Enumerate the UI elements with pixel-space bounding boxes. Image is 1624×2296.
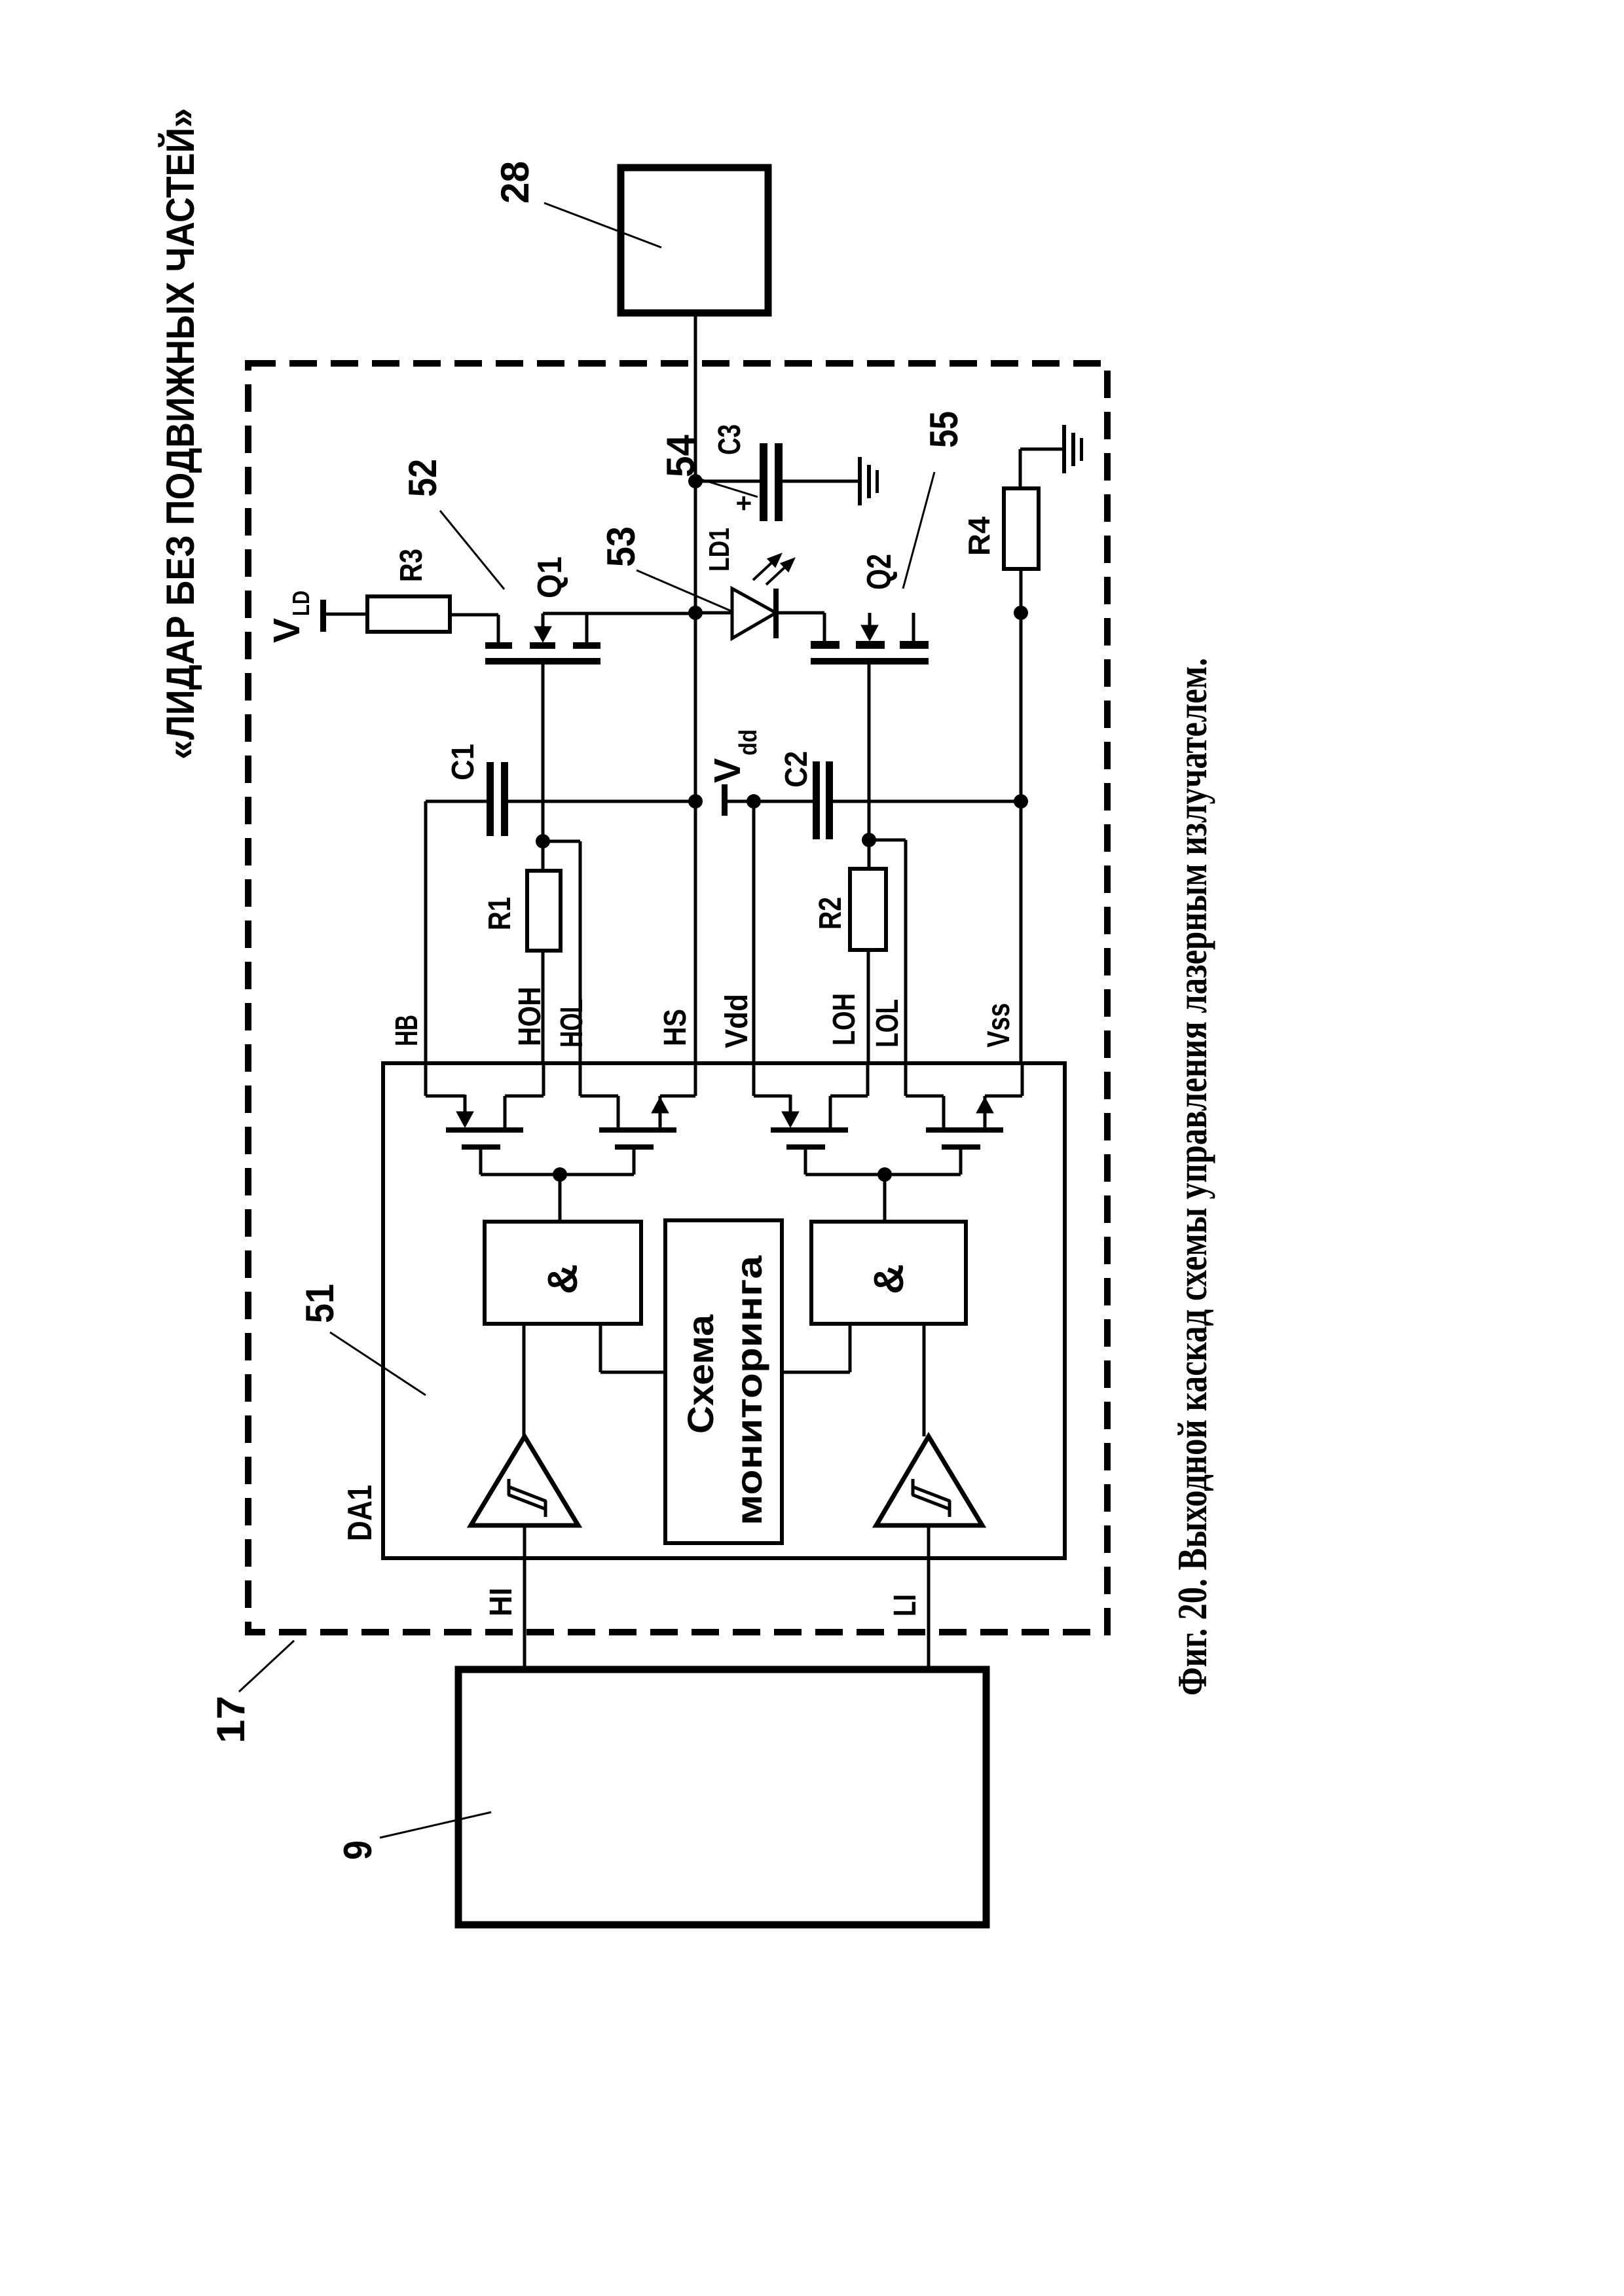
svg-text:Vdd: Vdd bbox=[720, 994, 754, 1048]
svg-text:Фиг. 20. Выходной каскад схе: Фиг. 20. Выходной каскад схемы управлени… bbox=[1169, 658, 1215, 1696]
svg-text:HS: HS bbox=[658, 1009, 693, 1046]
svg-text:9: 9 bbox=[336, 1840, 380, 1860]
svg-text:17: 17 bbox=[209, 1696, 253, 1743]
svg-text:54: 54 bbox=[659, 434, 703, 477]
svg-text:&: & bbox=[865, 1264, 912, 1294]
svg-text:53: 53 bbox=[599, 526, 643, 567]
svg-text:Vss: Vss bbox=[982, 1003, 1016, 1048]
svg-text:LI: LI bbox=[888, 1594, 923, 1616]
svg-text:LD: LD bbox=[287, 591, 314, 616]
svg-text:Q2: Q2 bbox=[860, 554, 898, 590]
svg-text:R4: R4 bbox=[962, 517, 996, 556]
svg-text:R3: R3 bbox=[394, 549, 429, 582]
svg-text:55: 55 bbox=[922, 411, 966, 448]
svg-text:51: 51 bbox=[298, 1284, 342, 1323]
svg-text:V: V bbox=[266, 618, 308, 643]
svg-text:28: 28 bbox=[493, 161, 537, 204]
svg-text:LD1: LD1 bbox=[703, 528, 735, 572]
svg-text:Q1: Q1 bbox=[531, 556, 569, 598]
svg-text:LOH: LOH bbox=[827, 993, 862, 1046]
svg-text:R1: R1 bbox=[483, 897, 517, 930]
svg-text:+: + bbox=[728, 495, 759, 511]
svg-text:V: V bbox=[707, 758, 748, 783]
svg-text:HOH: HOH bbox=[513, 987, 547, 1046]
svg-text:мониторинга: мониторинга bbox=[728, 1255, 769, 1525]
svg-text:&: & bbox=[539, 1264, 586, 1294]
svg-text:HB: HB bbox=[390, 1015, 424, 1046]
svg-text:LOL: LOL bbox=[870, 999, 905, 1048]
svg-text:Схема: Схема bbox=[680, 1314, 721, 1434]
svg-text:R2: R2 bbox=[813, 897, 848, 930]
svg-text:HOL: HOL bbox=[555, 999, 589, 1048]
svg-text:C3: C3 bbox=[712, 424, 747, 455]
svg-text:52: 52 bbox=[401, 459, 445, 497]
svg-text:«ЛИДАР БЕЗ ПОДВИЖНЫХ ЧАСТЕЙ»: «ЛИДАР БЕЗ ПОДВИЖНЫХ ЧАСТЕЙ» bbox=[158, 108, 202, 759]
svg-text:C1: C1 bbox=[446, 744, 481, 780]
svg-text:HI: HI bbox=[484, 1588, 519, 1616]
svg-text:dd: dd bbox=[735, 729, 762, 756]
svg-text:C2: C2 bbox=[779, 751, 814, 788]
svg-text:DA1: DA1 bbox=[341, 1485, 379, 1541]
